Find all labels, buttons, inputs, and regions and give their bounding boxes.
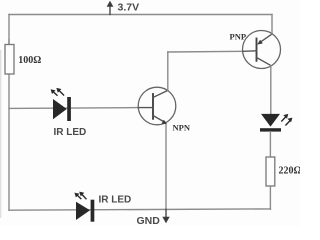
transistor Q1 NPN <box>138 87 176 125</box>
label 3.7V <box>118 2 140 14</box>
ground arrow <box>162 209 169 223</box>
scan edge artifact left border <box>0 50 2 218</box>
wire bottom rail <box>9 209 270 210</box>
IR LED D1 (upper) <box>53 97 71 121</box>
svg-text:IR LED: IR LED <box>54 127 87 138</box>
wire NPN emitter down to ground rail <box>165 125 167 210</box>
transistor Q2 PNP <box>243 31 281 69</box>
LED D3 (output, pointing down) <box>260 114 281 132</box>
IR LED D2 emission arrows <box>74 192 86 199</box>
IR LED D2 (lower) <box>76 200 94 222</box>
label 100Ω <box>18 55 41 66</box>
resistor 220Ω <box>266 157 275 186</box>
svg-text:3.7V: 3.7V <box>118 2 140 14</box>
label 220Ω <box>279 166 302 177</box>
resistor 100Ω <box>5 40 14 74</box>
svg-text:IR LED: IR LED <box>99 195 132 206</box>
label NPN <box>173 123 191 133</box>
wire LED to resistor <box>269 132 271 157</box>
wire PNP collector down to LED <box>270 66 272 114</box>
svg-text:PNP: PNP <box>230 32 247 42</box>
wire top rail <box>9 14 272 16</box>
svg-text:NPN: NPN <box>173 123 191 133</box>
label PNP <box>230 32 247 42</box>
svg-text:100Ω: 100Ω <box>18 55 41 66</box>
LED D3 emission arrows <box>282 114 293 125</box>
wire upper branch (left rail to NPN base) <box>9 107 138 110</box>
IR LED D1 emission arrows <box>51 88 64 95</box>
svg-text:220Ω: 220Ω <box>279 166 301 177</box>
supply arrow 3.7V <box>107 1 114 15</box>
wire node to PNP base <box>168 50 243 53</box>
svg-text:GND: GND <box>137 215 161 226</box>
label IR LED (lower) <box>99 195 132 206</box>
wire left rail <box>8 15 10 211</box>
label IR LED (upper) <box>54 127 87 138</box>
wire top rail to PNP emitter <box>271 15 273 35</box>
label GND <box>137 215 161 227</box>
wire NPN collector up to node <box>167 52 169 90</box>
wire resistor to bottom rail <box>269 186 271 209</box>
